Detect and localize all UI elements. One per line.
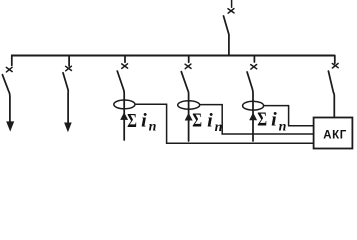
svg-text:n: n (279, 120, 287, 135)
svg-text:Σ: Σ (127, 110, 137, 132)
svg-text:АКГ: АКГ (323, 129, 347, 141)
svg-text:Σ: Σ (192, 110, 202, 132)
svg-text:Σ: Σ (257, 109, 267, 131)
svg-text:n: n (215, 120, 223, 135)
svg-text:i: i (207, 111, 213, 132)
svg-text:n: n (149, 120, 157, 135)
svg-text:i: i (271, 110, 277, 131)
svg-text:i: i (141, 111, 147, 132)
